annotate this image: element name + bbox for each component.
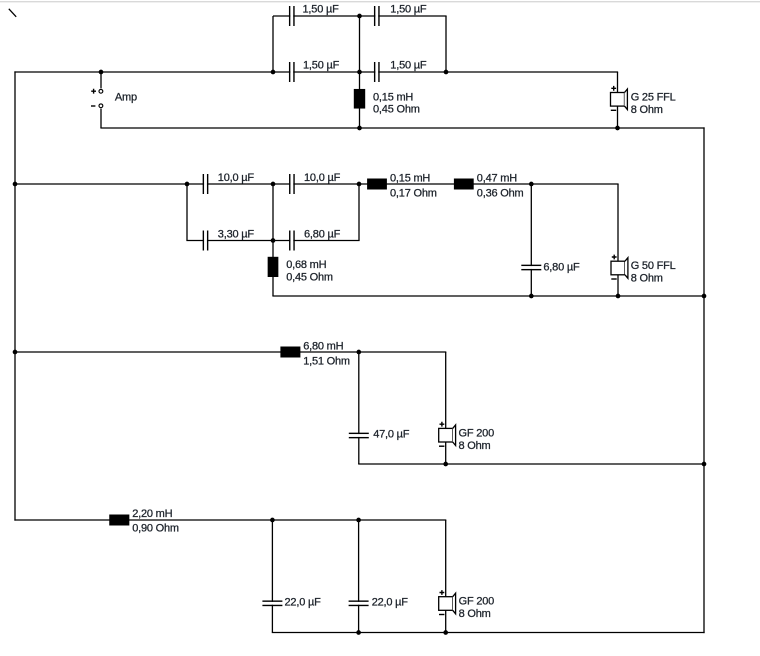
capacitor C7 3,30 uF bbox=[203, 231, 209, 251]
amp minus sign bbox=[91, 105, 95, 107]
junction node at (359.5,16) bbox=[357, 14, 362, 19]
wire woofer1 main row y352 bbox=[14, 351, 446, 353]
svg-text:10,0 µF: 10,0 µF bbox=[304, 172, 341, 184]
junction node at (359.5,128) bbox=[357, 126, 362, 131]
inductor L5 6,80 mH series bbox=[280, 347, 300, 358]
capacitor C12 22,0 uF shunt bbox=[349, 600, 369, 606]
junction node at (446,72) bbox=[444, 70, 449, 75]
capacitor C5 10,0 uF bbox=[203, 174, 209, 194]
capacitor C4 1,50 uF second row right bbox=[374, 62, 380, 82]
svg-text:GF 200: GF 200 bbox=[459, 427, 495, 439]
capacitor C2 1,50 uF top row right bbox=[374, 6, 380, 26]
wire return row y128 bbox=[100, 127, 704, 129]
wire midrange main row y184 bbox=[14, 183, 618, 185]
top window edge line bbox=[0, 1, 760, 2]
wire woofer1 bottom row y464 bbox=[358, 463, 704, 465]
svg-text:8 Ohm: 8 Ohm bbox=[459, 440, 491, 452]
amp plus terminal bbox=[99, 89, 103, 93]
inductor L1 0,15 mH shunt bbox=[354, 89, 365, 109]
junction node at (187,184) bbox=[185, 182, 190, 187]
svg-text:3,30 µF: 3,30 µF bbox=[218, 228, 255, 240]
speaker LS2 G 50 FFL bbox=[611, 255, 628, 279]
wire top cap row y16 bbox=[273, 15, 447, 17]
svg-text:8 Ohm: 8 Ohm bbox=[459, 608, 491, 620]
svg-text:2,20 mH: 2,20 mH bbox=[132, 508, 172, 520]
svg-text:0,36 Ohm: 0,36 Ohm bbox=[477, 187, 524, 199]
capacitor C1 1,50 uF top row left bbox=[289, 6, 295, 26]
wire woofer2 bottom row y632.5 bbox=[272, 632, 705, 634]
inductor L2 0,15 mH series bbox=[367, 179, 387, 190]
svg-text:0,45 Ohm: 0,45 Ohm bbox=[286, 271, 333, 283]
svg-text:6,80 µF: 6,80 µF bbox=[543, 261, 580, 273]
svg-text:8 Ohm: 8 Ohm bbox=[631, 104, 663, 116]
wire midrange speaker drop x618 bbox=[617, 184, 619, 296]
wire amp minus stub bbox=[100, 109, 102, 128]
svg-text:0,15 mH: 0,15 mH bbox=[373, 92, 413, 104]
wire riser x273 rows 16-72 bbox=[272, 16, 274, 72]
capacitor C6 10,0 uF bbox=[289, 174, 295, 194]
svg-text:1,50 µF: 1,50 µF bbox=[390, 4, 427, 16]
capacitor C9 6,80 uF shunt bbox=[521, 265, 541, 271]
svg-text:1,50 µF: 1,50 µF bbox=[303, 60, 340, 72]
wire amp node row y72 bbox=[14, 71, 618, 73]
junction node at (358.6,632.5) bbox=[356, 630, 361, 635]
junction node at (358.6,520) bbox=[356, 518, 361, 523]
wire shunt cap drop x358.8 bbox=[358, 352, 360, 464]
wire riser x359.5 rows 16-72 bbox=[359, 16, 361, 72]
junction node at (445.7,464) bbox=[443, 462, 448, 467]
wire woofer2 speaker drop x445.7 bbox=[445, 520, 447, 633]
wire riser x187 rows 184-240.5 bbox=[186, 184, 188, 241]
wire amp plus stub bbox=[100, 72, 102, 88]
svg-text:Amp: Amp bbox=[115, 92, 137, 104]
inductor L3 0,47 mH series bbox=[454, 179, 474, 190]
svg-text:0,45 Ohm: 0,45 Ohm bbox=[373, 104, 420, 116]
wire shunt cap drop x272.4 bbox=[271, 520, 273, 633]
junction node at (445.7,632.5) bbox=[443, 630, 448, 635]
svg-text:0,17 Ohm: 0,17 Ohm bbox=[390, 187, 437, 199]
svg-text:22,0 µF: 22,0 µF bbox=[285, 597, 322, 609]
junction node at (618,296) bbox=[616, 294, 621, 299]
svg-text:47,0 µF: 47,0 µF bbox=[373, 429, 410, 441]
svg-text:G 50 FFL: G 50 FFL bbox=[631, 260, 676, 272]
wire riser x359 rows 184-240.5 bbox=[358, 184, 360, 241]
junction node at (15,184) bbox=[13, 182, 18, 187]
svg-text:10,0 µF: 10,0 µF bbox=[218, 172, 255, 184]
junction node at (531.3,184) bbox=[529, 182, 534, 187]
svg-text:1,50 µF: 1,50 µF bbox=[390, 60, 427, 72]
wire shunt inductor branch x273 rows 184-296 bbox=[272, 184, 274, 296]
wire midrange lower cap branch y240.5 bbox=[186, 240, 359, 242]
junction node at (273,72) bbox=[271, 70, 276, 75]
wire left bus vertical bbox=[14, 71, 16, 520]
capacitor C10 47,0 uF shunt bbox=[349, 433, 369, 439]
capacitor C3 1,50 uF second row left bbox=[289, 62, 295, 82]
wire shunt cap drop x358.6 bbox=[358, 520, 360, 633]
speaker LS4 GF 200 lower bbox=[439, 590, 456, 614]
junction node at (359.5,72) bbox=[357, 70, 362, 75]
junction node at (704,296) bbox=[702, 294, 707, 299]
amp plus sign bbox=[91, 89, 96, 94]
svg-text:0,90 Ohm: 0,90 Ohm bbox=[132, 523, 179, 535]
junction node at (273,240.5) bbox=[271, 238, 276, 243]
wire woofer1 speaker drop x445.7 bbox=[445, 352, 447, 464]
inductor L6 2,20 mH series bbox=[109, 515, 129, 526]
wire shunt cap drop x531.3 bbox=[530, 184, 532, 296]
svg-text:22,0 µF: 22,0 µF bbox=[372, 597, 409, 609]
stray diagonal mark top-left bbox=[9, 9, 16, 17]
wire tweeter drop x617.5 bbox=[617, 72, 619, 128]
svg-text:6,80 µF: 6,80 µF bbox=[304, 228, 341, 240]
svg-text:0,68 mH: 0,68 mH bbox=[286, 259, 326, 271]
junction node at (704,464) bbox=[702, 462, 707, 467]
junction node at (273,184) bbox=[271, 182, 276, 187]
speaker LS3 GF 200 upper bbox=[439, 422, 456, 446]
capacitor C11 22,0 uF shunt bbox=[262, 600, 282, 606]
junction node at (358.8,352) bbox=[356, 350, 361, 355]
svg-text:6,80 mH: 6,80 mH bbox=[303, 340, 343, 352]
svg-text:0,47 mH: 0,47 mH bbox=[477, 172, 517, 184]
junction node at (15,352) bbox=[13, 350, 18, 355]
capacitor C8 6,80 uF bbox=[289, 231, 295, 251]
junction node at (617.5,128) bbox=[615, 126, 620, 131]
junction node at (359,184) bbox=[357, 182, 362, 187]
wire inductor branch x359.5 rows 72-128 bbox=[359, 72, 361, 128]
wire midrange bottom row y296 bbox=[272, 295, 704, 297]
svg-text:1,51 Ohm: 1,51 Ohm bbox=[303, 356, 350, 368]
junction node at (531.3,296) bbox=[529, 294, 534, 299]
svg-text:G 25 FFL: G 25 FFL bbox=[631, 92, 676, 104]
junction node at (272.4,520) bbox=[270, 518, 275, 523]
svg-text:0,15 mH: 0,15 mH bbox=[390, 172, 430, 184]
svg-text:1,50 µF: 1,50 µF bbox=[303, 4, 340, 16]
svg-text:8 Ohm: 8 Ohm bbox=[631, 273, 663, 285]
amp minus terminal bbox=[99, 104, 103, 108]
junction node at (101,72) bbox=[99, 70, 104, 75]
inductor L4 0,68 mH shunt bbox=[268, 257, 279, 277]
speaker LS1 G 25 FFL bbox=[611, 86, 628, 110]
wire woofer2 main row y520 bbox=[14, 519, 446, 521]
wire riser x446 rows 16-72 bbox=[445, 16, 447, 72]
svg-text:GF 200: GF 200 bbox=[459, 596, 495, 608]
wire right bus vertical bbox=[703, 127, 705, 633]
